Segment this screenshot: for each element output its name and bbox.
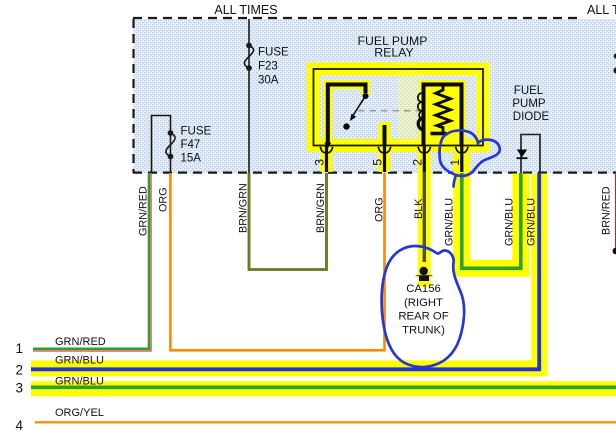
svg-text:3: 3 [313,159,327,166]
pin 5 connector arcs [378,147,390,153]
fuse F23 feed wire [248,19,250,173]
blue pen loop around connector CA156 [382,246,464,367]
wire BRN/GRN green core [249,173,327,270]
svg-text:TRUNK): TRUNK) [402,324,445,336]
highlight coil interior fill [426,85,460,143]
svg-text:REAR OF: REAR OF [398,311,448,323]
switch contact dot [343,123,349,129]
highlight coil frame [424,85,462,146]
fuse F47 loop [152,116,171,174]
wire GRN/BLU from relay pin 1 to fuel pump diode [462,173,521,268]
svg-text:F23: F23 [258,61,278,73]
svg-text:ORG/YEL: ORG/YEL [55,407,104,419]
pin 3 connector arcs [320,147,332,153]
svg-text:FUSE: FUSE [258,47,289,59]
highlight pin 2 wire to CA156 [418,145,431,287]
fuse F47 element [168,130,174,136]
wire GRN/BLU (blue) from diode to row 2 [31,173,539,369]
svg-text:ALL TIMES: ALL TIMES [587,3,616,17]
svg-text:BRN/GRN: BRN/GRN [315,183,327,233]
switch pivot dot [363,93,369,99]
svg-text:1: 1 [16,341,24,356]
fuse box interior (dotted light blue) [133,19,616,173]
wire 3 GRN/BLU horizontal [31,385,616,389]
svg-text:ALL TIMES: ALL TIMES [214,3,277,17]
coil lower hook [418,118,424,131]
wire BRN/RED at right edge [615,173,616,248]
highlight pin 3 stub [321,145,333,172]
fuel pump diode loop [521,135,540,174]
svg-text:F47: F47 [181,139,201,151]
relay switch contact (pins 3-5) [328,85,366,146]
diode D1 symbol [517,150,527,158]
svg-text:GRN/BLU: GRN/BLU [503,198,515,246]
relay coil frame (pins 2-1) [424,85,462,146]
wire BRN/GRN from fuse F23 to relay pin 3 (brown edge) [249,173,327,270]
switch arm [353,96,366,116]
red stripe of GRN/RED wire [33,173,151,351]
svg-text:ORG: ORG [373,197,385,222]
svg-text:ORG: ORG [157,187,169,212]
fuse F23 element [246,43,252,49]
svg-text:30A: 30A [258,75,279,87]
svg-text:BRN/RED: BRN/RED [600,186,612,235]
svg-text:RELAY: RELAY [374,46,413,60]
fuse box bottom dashed border [133,172,616,174]
wire 4 ORG/YEL horizontal [35,421,616,423]
highlight pin 1 wire / U-turn to diode [462,145,521,268]
relay U1 box outline [314,69,484,146]
pale highlighter wash inside relay [398,71,422,144]
svg-text:BLK: BLK [413,198,425,219]
mechanical link (dashed gray) [358,110,421,112]
svg-text:2: 2 [410,159,424,166]
svg-text:15A: 15A [181,153,202,165]
highlight coil zigzag [435,86,452,133]
highlight switch contact [328,85,366,146]
svg-text:BRN/GRN: BRN/GRN [237,183,249,233]
svg-text:DIODE: DIODE [513,111,550,123]
switch arm arrowhead [350,114,356,122]
svg-text:CA156: CA156 [406,283,441,295]
svg-text:GRN/BLU: GRN/BLU [55,355,104,367]
pin 3 exit arrowhead [324,143,331,149]
svg-text:4: 4 [16,418,24,431]
wire BLK from relay pin 2 to CA156 [423,172,426,262]
svg-text:5: 5 [371,159,385,166]
svg-text:FUSE: FUSE [181,126,212,138]
svg-text:GRN/BLU: GRN/BLU [525,198,537,246]
highlight blue riser and wire 2 [31,174,539,369]
fuse box top dashed border [133,17,582,19]
pin 1 connector arcs [456,147,468,153]
highlight relay outline ring [314,69,484,146]
pin 5 stub [383,125,387,146]
svg-text:GRN/BLU: GRN/BLU [443,198,455,246]
pin 2 connector arcs [418,147,430,153]
coil bottom bar [431,132,447,136]
blue pen loop around relay pin 1 [439,130,499,186]
svg-text:PUMP: PUMP [512,98,546,110]
right edge fuse dots [614,53,616,58]
svg-text:2: 2 [16,363,24,378]
wire ORG from fuse F47 to relay pin 5 [170,173,384,350]
svg-text:GRN/RED: GRN/RED [55,336,106,348]
coil winding zigzag [436,87,451,132]
svg-text:GRN/BLU: GRN/BLU [55,375,104,387]
svg-text:1: 1 [448,159,462,166]
coil loops [418,93,422,119]
highlight wire 3 [31,381,616,396]
svg-text:(RIGHT: (RIGHT [404,297,443,309]
svg-text:GRN/RED: GRN/RED [137,186,149,236]
highlight pin 5 stub [379,122,391,172]
connector CA156 terminal [420,267,428,275]
svg-text:FUEL: FUEL [514,85,544,97]
fuse box left dashed border [132,19,134,173]
right edge connector dot [613,248,616,255]
svg-text:3: 3 [16,381,24,396]
relay pin stubs below box [325,146,328,173]
wire GRN/RED from fuse F47 to row 1 [33,173,149,349]
